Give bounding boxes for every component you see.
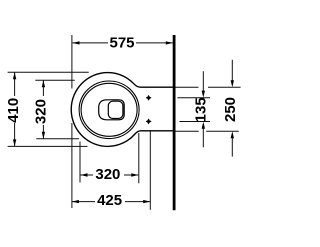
dim 410 extension lines [8, 71, 89, 73]
dim 575 [73, 42, 173, 44]
dim 410 [14, 72, 16, 146]
svg-text:425: 425 [97, 192, 122, 209]
fixing marker bottom [146, 119, 151, 124]
drain outer shape [99, 100, 125, 120]
wall [173, 35, 176, 210]
dim 135 arrows [202, 71, 204, 147]
dim 320 bottom extension lines [79, 142, 81, 183]
dim 425 [72, 201, 150, 203]
dim 135 extension lines [178, 97, 211, 99]
toilet outer outline with mount block [71, 73, 173, 147]
fixing marker top [146, 95, 151, 100]
rim outer circle [79, 81, 139, 139]
svg-text:320: 320 [95, 166, 120, 183]
dim 425 right extension line [149, 132, 151, 210]
svg-text:250: 250 [222, 97, 239, 122]
svg-text:135: 135 [192, 97, 209, 122]
svg-text:320: 320 [32, 99, 49, 124]
dim 250 extension lines [175, 86, 198, 88]
dim 575 tick / 425 left extension line [71, 35, 73, 89]
dim 250 arrows [231, 60, 233, 157]
svg-text:575: 575 [109, 34, 134, 51]
dim 320 left extension lines [35, 79, 75, 81]
dim 320 left [42, 80, 44, 139]
rim inner circle [81, 83, 137, 136]
svg-text:410: 410 [5, 98, 22, 123]
dim 320 bottom [81, 174, 139, 176]
drain inner rounded rect [108, 101, 123, 118]
